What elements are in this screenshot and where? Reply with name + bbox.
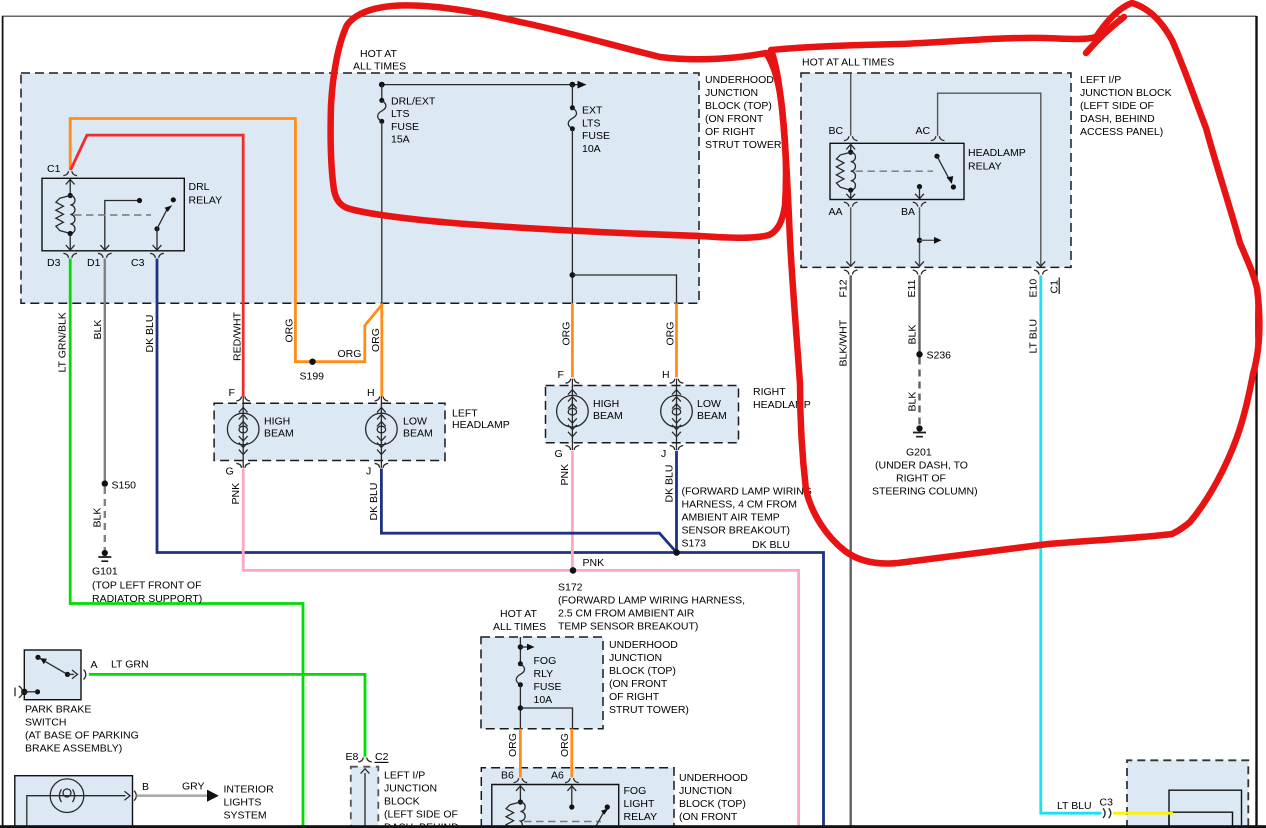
- terminal J (right low beam): [670, 446, 684, 451]
- svg-text:HIGH: HIGH: [593, 398, 619, 410]
- wire LT GRN from park brake to E8: [89, 674, 365, 756]
- terminal AC: [931, 136, 945, 141]
- bulb LOW BEAM (left): [366, 397, 398, 468]
- D1 branch inside relay: [105, 201, 140, 251]
- wire: feed to DRL/EXT fuse: [381, 85, 383, 101]
- svg-text:E11: E11: [906, 279, 918, 297]
- svg-text:BLK: BLK: [906, 325, 918, 345]
- svg-text:BLK: BLK: [92, 320, 104, 340]
- terminal BC: [844, 136, 858, 141]
- svg-text:ALL TIMES: ALL TIMES: [353, 61, 406, 73]
- switch contacts: [171, 197, 176, 202]
- bulb LOW BEAM (right): [661, 379, 693, 450]
- wire ORG to A6: [570, 729, 573, 778]
- svg-text:HEADLAMP: HEADLAMP: [968, 147, 1026, 159]
- svg-text:LIGHT: LIGHT: [624, 798, 656, 810]
- svg-text:F: F: [558, 369, 564, 381]
- svg-text:C3: C3: [131, 257, 145, 269]
- red annotation arrow tick: [1086, 17, 1124, 53]
- node: junction on EXT output: [570, 272, 576, 278]
- ground G201: [913, 425, 926, 436]
- red annotation scribble (left loop): [331, 5, 786, 237]
- svg-text:INTERIOR: INTERIOR: [224, 784, 275, 796]
- svg-text:AMBIENT AIR TEMP: AMBIENT AIR TEMP: [682, 512, 780, 524]
- wire ORG into B6: [519, 767, 522, 778]
- lower contact pair: [21, 689, 27, 695]
- terminal J (left low beam): [375, 463, 389, 468]
- svg-text:J: J: [661, 448, 666, 460]
- svg-text:LIGHTS: LIGHTS: [224, 797, 262, 809]
- interior lights box: [15, 776, 133, 828]
- interior lamp: [50, 779, 84, 813]
- bulb HIGH BEAM (left): [227, 397, 259, 468]
- fuse FOG RLY FUSE 10A: [516, 661, 524, 687]
- svg-text:DK BLU: DK BLU: [752, 539, 790, 551]
- ground G101: [98, 550, 111, 561]
- wire ORG to right headlamp low beam H: [675, 303, 678, 377]
- svg-text:BLOCK: BLOCK: [384, 796, 420, 808]
- node S199: [309, 359, 315, 365]
- wire BLK/WHT from F12: [850, 275, 852, 828]
- svg-text:HIGH: HIGH: [264, 416, 290, 428]
- svg-text:ORG: ORG: [507, 733, 519, 757]
- svg-text:BLOCK (TOP): BLOCK (TOP): [705, 100, 772, 112]
- svg-text:FOG: FOG: [534, 655, 557, 667]
- node S150: [102, 480, 108, 486]
- svg-text:RELAY: RELAY: [189, 195, 223, 207]
- fuse EXT LTS FUSE 10A: [568, 105, 576, 131]
- svg-text:(UNDER DASH, TO: (UNDER DASH, TO: [875, 460, 968, 472]
- svg-text:(LEFT SIDE OF: (LEFT SIDE OF: [1080, 100, 1154, 112]
- svg-text:ACCESS PANEL): ACCESS PANEL): [1080, 126, 1163, 138]
- terminal H (right low beam): [670, 379, 684, 384]
- terminal A: [84, 670, 86, 680]
- wire: AA down to F12: [850, 207, 852, 266]
- wire DK BLU from C3: [157, 259, 824, 828]
- svg-text:C2: C2: [375, 751, 389, 763]
- dashed control line: [74, 214, 151, 216]
- underhood junction block box (left): [21, 73, 699, 303]
- svg-text:C1: C1: [47, 163, 61, 175]
- svg-text:HARNESS, 4 CM FROM: HARNESS, 4 CM FROM: [682, 499, 798, 511]
- svg-text:HEADLAMP: HEADLAMP: [452, 419, 510, 431]
- terminal C1: [63, 171, 77, 176]
- svg-text:G201: G201: [906, 447, 932, 459]
- wire GRY: [137, 794, 208, 797]
- svg-text:PNK: PNK: [559, 464, 571, 486]
- svg-text:DRL/EXT: DRL/EXT: [391, 96, 436, 108]
- svg-text:10A: 10A: [582, 143, 601, 155]
- relay coil branch: [69, 179, 71, 196]
- svg-text:RELAY: RELAY: [968, 161, 1002, 173]
- svg-text:SYSTEM: SYSTEM: [224, 810, 267, 822]
- svg-text:HOT AT ALL TIMES: HOT AT ALL TIMES: [802, 57, 894, 69]
- dashed control line: [856, 170, 934, 172]
- switch blade: [38, 657, 68, 674]
- svg-text:LTS: LTS: [391, 108, 409, 120]
- red annotation scribble (right loop): [771, 3, 1259, 564]
- svg-text:DK BLU: DK BLU: [144, 315, 156, 353]
- svg-text:S172: S172: [558, 582, 583, 594]
- relay HEADLAMP RELAY box: [830, 143, 964, 199]
- terminal G (left high beam): [236, 463, 250, 468]
- coil to D3: [69, 234, 71, 251]
- svg-text:TEMP SENSOR BREAKOUT): TEMP SENSOR BREAKOUT): [558, 621, 698, 633]
- wire PNK from right G: [571, 451, 574, 571]
- svg-text:LTS: LTS: [582, 117, 600, 129]
- svg-text:BA: BA: [901, 206, 915, 218]
- wire BLK dashed to ground: [918, 358, 920, 426]
- svg-text:HOT AT: HOT AT: [500, 608, 538, 620]
- svg-text:BLK/WHT: BLK/WHT: [838, 319, 850, 366]
- wire LT GRN/BLK from D3: [70, 259, 303, 828]
- relay switch: [934, 154, 939, 159]
- bulb HIGH BEAM (right): [557, 379, 589, 450]
- svg-text:ORG: ORG: [370, 328, 382, 352]
- fog relay dashed control: [524, 821, 601, 823]
- node: bus junction at EXT fuse: [570, 82, 576, 88]
- svg-text:DASH, BEHIND: DASH, BEHIND: [1080, 113, 1155, 125]
- svg-text:(FORWARD LAMP WIRING: (FORWARD LAMP WIRING: [682, 486, 812, 498]
- svg-text:RIGHT OF: RIGHT OF: [896, 473, 946, 485]
- wire ORG fuse output to left low beam H: [380, 303, 383, 396]
- svg-text:PARK BRAKE: PARK BRAKE: [25, 704, 91, 716]
- svg-text:ORG: ORG: [284, 319, 296, 343]
- svg-text:LT GRN: LT GRN: [111, 659, 149, 671]
- svg-text:FOG: FOG: [624, 785, 647, 797]
- svg-text:BC: BC: [829, 125, 844, 137]
- svg-text:JUNCTION: JUNCTION: [609, 652, 662, 664]
- svg-text:UNDERHOOD: UNDERHOOD: [679, 772, 748, 784]
- svg-text:S236: S236: [927, 350, 952, 362]
- svg-text:ALL TIMES: ALL TIMES: [493, 621, 546, 633]
- svg-text:(ON FRONT: (ON FRONT: [679, 811, 738, 823]
- svg-text:LEFT: LEFT: [452, 408, 478, 420]
- wire LT BLU from E10: [1041, 275, 1102, 813]
- svg-text:RED/WHT: RED/WHT: [232, 311, 244, 361]
- terminal G (right high beam): [566, 446, 580, 451]
- page border frame: [2, 16, 4, 828]
- terminal F12: [844, 270, 858, 275]
- switch contact (top): [35, 655, 40, 660]
- svg-text:EXT: EXT: [582, 105, 603, 117]
- svg-text:BLK: BLK: [92, 508, 104, 528]
- arrow to interior lights system: [207, 790, 219, 802]
- svg-text:ORG: ORG: [559, 733, 571, 757]
- svg-text:(FORWARD LAMP WIRING HARNESS,: (FORWARD LAMP WIRING HARNESS,: [558, 595, 745, 607]
- terminal B6: [514, 778, 528, 783]
- fog lamp dashed box (bottom right): [1127, 760, 1248, 828]
- svg-text:(ON FRONT: (ON FRONT: [609, 678, 668, 690]
- svg-text:(AT BASE OF PARKING: (AT BASE OF PARKING: [25, 730, 139, 742]
- park brake switch box: [24, 650, 81, 700]
- svg-text:E10: E10: [1027, 279, 1039, 298]
- svg-text:OF RIGHT: OF RIGHT: [609, 691, 660, 703]
- svg-text:F12: F12: [837, 279, 849, 297]
- wire DK BLU from right J: [675, 451, 678, 553]
- svg-text:B6: B6: [501, 770, 514, 782]
- relay DRL RELAY box: [42, 178, 184, 251]
- node: bus junction at DRL fuse: [379, 82, 385, 88]
- svg-text:LOW: LOW: [403, 416, 427, 428]
- svg-text:SENSOR BREAKOUT): SENSOR BREAKOUT): [682, 525, 791, 537]
- svg-text:RIGHT: RIGHT: [753, 386, 786, 398]
- svg-text:STRUT TOWER): STRUT TOWER): [609, 704, 689, 716]
- fog lamp inner housing: [1169, 790, 1242, 828]
- wire ORG from S199 branch to DRL relay C1: [70, 119, 382, 362]
- wire ORG fuse output to right headlamp high beam F: [571, 303, 574, 377]
- svg-text:10A: 10A: [534, 694, 553, 706]
- wire: feed into BC: [850, 73, 852, 136]
- svg-text:RLY: RLY: [534, 668, 554, 680]
- wire YEL: [1113, 812, 1173, 815]
- svg-text:UNDERHOOD: UNDERHOOD: [609, 639, 678, 651]
- terminal F (left high beam): [236, 397, 250, 402]
- svg-text:JUNCTION: JUNCTION: [679, 785, 732, 797]
- wire: power bus: [380, 84, 578, 86]
- svg-text:AA: AA: [829, 206, 843, 218]
- svg-text:UNDERHOOD: UNDERHOOD: [705, 74, 774, 86]
- svg-text:D1: D1: [87, 257, 101, 269]
- wire ORG fuse to B6: [519, 729, 522, 778]
- svg-text:BEAM: BEAM: [264, 428, 294, 440]
- svg-text:C1: C1: [1048, 280, 1060, 294]
- svg-text:(TOP LEFT FRONT OF: (TOP LEFT FRONT OF: [92, 580, 202, 592]
- wire ORG into A6: [570, 767, 573, 778]
- svg-text:H: H: [662, 369, 670, 381]
- fuse DRL/EXT LTS FUSE 15A: [378, 98, 386, 124]
- left headlamp box: [214, 403, 445, 460]
- left i/p junction block box (right): [801, 73, 1071, 267]
- svg-text:RELAY: RELAY: [624, 811, 658, 823]
- relay coil branch: [850, 144, 852, 152]
- svg-text:LT BLU: LT BLU: [1057, 800, 1092, 812]
- left i/p junction block (lower) dashed box: [351, 767, 379, 828]
- svg-text:JUNCTION BLOCK: JUNCTION BLOCK: [1080, 87, 1172, 99]
- wire PNK from left G: [243, 469, 798, 828]
- svg-text:S150: S150: [112, 480, 137, 492]
- svg-text:G101: G101: [92, 566, 118, 578]
- svg-text:PNK: PNK: [583, 557, 605, 569]
- svg-text:BLOCK (TOP): BLOCK (TOP): [609, 665, 676, 677]
- svg-text:BEAM: BEAM: [697, 410, 727, 422]
- svg-text:LT BLU: LT BLU: [1028, 319, 1040, 354]
- svg-text:SWITCH: SWITCH: [25, 717, 66, 729]
- fuse output: [519, 685, 521, 729]
- svg-text:LT GRN/BLK: LT GRN/BLK: [57, 312, 69, 372]
- fog relay coil branch: [519, 785, 521, 802]
- terminal E11: [913, 270, 927, 275]
- svg-text:DRL: DRL: [189, 181, 210, 193]
- svg-text:JUNCTION: JUNCTION: [384, 783, 437, 795]
- svg-text:AC: AC: [916, 125, 931, 137]
- svg-text:B: B: [142, 781, 149, 793]
- svg-text:BEAM: BEAM: [403, 428, 433, 440]
- svg-text:RADIATOR SUPPORT): RADIATOR SUPPORT): [92, 593, 202, 605]
- terminal D1: [98, 253, 112, 258]
- svg-text:FUSE: FUSE: [534, 681, 562, 693]
- wire: branch to right headlamp low beam: [572, 275, 676, 303]
- svg-text:DK BLU: DK BLU: [663, 465, 675, 503]
- wire: feed to EXT fuse: [571, 85, 573, 108]
- node S173: [673, 549, 680, 556]
- chassis mark: [14, 688, 16, 697]
- terminal H (left low beam): [375, 397, 389, 402]
- wire: EXT fuse output down: [571, 129, 573, 303]
- terminal C3: [150, 253, 164, 258]
- svg-text:FUSE: FUSE: [391, 121, 419, 133]
- svg-text:S173: S173: [682, 538, 707, 550]
- svg-text:A6: A6: [551, 770, 564, 782]
- svg-text:FUSE: FUSE: [582, 130, 610, 142]
- svg-text:GRY: GRY: [182, 781, 205, 793]
- svg-text:LEFT I/P: LEFT I/P: [1080, 74, 1121, 86]
- svg-text:15A: 15A: [391, 134, 410, 146]
- svg-text:A: A: [91, 659, 98, 671]
- node S172: [570, 567, 577, 574]
- wire: BA down to E11 with branch arrow: [919, 207, 921, 266]
- svg-text:H: H: [367, 387, 375, 399]
- svg-text:ORG: ORG: [561, 322, 573, 346]
- svg-text:J: J: [366, 466, 371, 478]
- coil arcs: [70, 196, 75, 234]
- fog fuse dashed box: [481, 637, 603, 729]
- wire BLK from D1: [104, 259, 106, 484]
- svg-text:G: G: [555, 448, 563, 460]
- svg-text:2.5 CM FROM AMBIENT AIR: 2.5 CM FROM AMBIENT AIR: [558, 608, 695, 620]
- wire RED from DRL relay C1 to left high beam F: [71, 135, 244, 396]
- svg-text:D3: D3: [47, 257, 61, 269]
- terminal D3: [63, 253, 77, 258]
- terminal E10: [1034, 270, 1048, 275]
- svg-text:BRAKE ASSEMBLY): BRAKE ASSEMBLY): [25, 743, 122, 755]
- relay FOG LIGHT RELAY box: [492, 785, 619, 828]
- terminal A6: [565, 778, 579, 783]
- node S236: [916, 351, 922, 357]
- svg-text:STRUT TOWER): STRUT TOWER): [705, 139, 785, 151]
- svg-text:ORG: ORG: [338, 348, 362, 360]
- svg-text:(LEFT SIDE OF: (LEFT SIDE OF: [384, 809, 458, 821]
- svg-text:ORG: ORG: [665, 322, 677, 346]
- svg-text:E8: E8: [346, 751, 359, 763]
- terminal BA: [913, 202, 927, 207]
- svg-text:PNK: PNK: [230, 483, 242, 505]
- connector E8 / C2: [358, 758, 372, 763]
- terminal B: [134, 791, 136, 801]
- svg-text:HOT AT: HOT AT: [360, 48, 398, 60]
- wire: AC to E10: [938, 93, 1041, 267]
- resistor zigzag of coil: [56, 196, 70, 234]
- wire YEL inside fog lamp box: [1126, 812, 1173, 815]
- svg-text:G: G: [226, 466, 234, 478]
- svg-text:F: F: [229, 387, 235, 399]
- svg-text:BLOCK (TOP): BLOCK (TOP): [679, 798, 746, 810]
- wire DK BLU from left J: [381, 469, 676, 553]
- svg-text:(ON FRONT: (ON FRONT: [705, 113, 764, 125]
- wire BLK dashed to ground: [104, 487, 106, 550]
- svg-text:C3: C3: [1100, 797, 1114, 809]
- svg-text:JUNCTION: JUNCTION: [705, 87, 758, 99]
- right headlamp box: [546, 386, 739, 443]
- fog relay switch: [571, 785, 573, 807]
- wire BLK from E11: [918, 275, 920, 354]
- svg-text:S199: S199: [300, 371, 325, 383]
- svg-text:LOW: LOW: [697, 398, 721, 410]
- svg-text:BLK: BLK: [906, 392, 918, 412]
- svg-text:STEERING COLUMN): STEERING COLUMN): [872, 486, 978, 498]
- terminal F (right high beam): [566, 379, 580, 384]
- switch common: [65, 672, 70, 677]
- BA contact: [917, 184, 922, 189]
- svg-text:LEFT I/P: LEFT I/P: [384, 770, 425, 782]
- svg-text:OF RIGHT: OF RIGHT: [705, 126, 756, 138]
- svg-text:BEAM: BEAM: [593, 410, 623, 422]
- wire: DRL fuse output down to box edge: [381, 121, 383, 303]
- fog relay dashed box: [481, 768, 674, 828]
- terminal AA: [844, 202, 858, 207]
- fog fuse feed: [519, 637, 521, 664]
- svg-text:DK BLU: DK BLU: [368, 483, 380, 521]
